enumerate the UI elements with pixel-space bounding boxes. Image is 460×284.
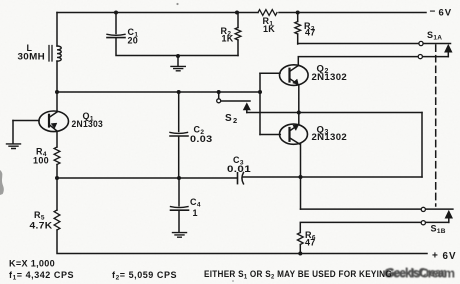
svg-text:0.01: 0.01	[227, 164, 251, 174]
svg-text:30MH: 30MH	[18, 52, 46, 62]
node dot R3 top	[296, 11, 300, 15]
svg-text:2N1302: 2N1302	[312, 72, 348, 82]
svg-text:2N1303: 2N1303	[72, 119, 104, 129]
svg-text:K=X 1,000: K=X 1,000	[9, 259, 55, 269]
resistor R2	[235, 28, 241, 41]
watermark	[384, 266, 455, 281]
wire Q3 base stub	[260, 134, 280, 136]
wire C4 top lead	[178, 178, 180, 206]
wire left vertical (collector line)	[56, 13, 58, 47]
svg-text:1K: 1K	[263, 24, 275, 34]
capacitor C1	[107, 34, 125, 35]
node dot R2 top	[235, 11, 239, 15]
node dot R4/R5	[55, 176, 59, 180]
svg-text:4.7K: 4.7K	[30, 221, 53, 231]
svg-text:1: 1	[193, 208, 198, 218]
svg-text:+: +	[432, 251, 438, 262]
wire top rail	[57, 12, 258, 14]
wire right loop bottom	[243, 176, 422, 178]
resistor R3	[295, 22, 301, 35]
contact circle S1B top	[421, 207, 425, 211]
node dot base bus	[258, 90, 262, 94]
node dot emitter junction	[297, 111, 301, 115]
svg-text:47: 47	[305, 238, 316, 248]
switch S1B arm arrow	[448, 218, 450, 223]
resistor R1	[258, 10, 277, 16]
node dot Q3 collector cross	[299, 175, 303, 179]
svg-text:f2= 5,059 CPS: f2= 5,059 CPS	[112, 270, 177, 282]
svg-text:20: 20	[128, 36, 139, 46]
wire R5 to bottom rail	[57, 230, 427, 254]
transistor Q3	[280, 124, 308, 144]
transistor Q1	[39, 111, 69, 132]
inductor L	[57, 46, 61, 61]
ground (C4)	[173, 233, 187, 238]
wire R6 branch / S1B lower contact	[300, 222, 449, 232]
wire Q1 emitter to R4	[56, 132, 58, 148]
node dot C1 top	[114, 11, 118, 15]
wire R6 to bottom rail	[299, 245, 301, 254]
wire C2 top lead	[178, 92, 180, 132]
node dot C2 top	[177, 90, 181, 94]
switch S2 contact line	[221, 100, 250, 102]
switch S2 contact stub	[218, 92, 220, 99]
wire C2 bottom lead	[178, 136, 180, 178]
switch S2 arm arrow	[244, 104, 250, 110]
wire inductor to Q1	[56, 61, 58, 112]
capacitor C3	[237, 173, 239, 184]
transistor Q2	[280, 65, 309, 86]
wire Q2 collector to S1A lower contact	[298, 57, 448, 66]
svg-text:EITHER S1 OR S2 MAY BE USED FO: EITHER S1 OR S2 MAY BE USED FOR KEYING	[204, 269, 392, 281]
wire S1A top contact	[298, 43, 451, 45]
node dot ground net	[176, 54, 180, 58]
wire Q3 collector down	[300, 144, 302, 209]
node dot Q1 collector branch	[55, 90, 59, 94]
node dot R6 bottom	[298, 252, 302, 256]
node dot S2 branch	[217, 90, 221, 94]
svg-text:GeekIsCrean: GeekIsCrean	[386, 268, 447, 280]
wire Q1 base	[13, 120, 39, 122]
resistor R6	[297, 233, 303, 245]
svg-text:47: 47	[305, 28, 316, 38]
scan smudge left edge	[0, 170, 4, 195]
wire S2 arm to right loop	[247, 112, 422, 114]
scan speck top	[176, 3, 178, 5]
wire R2 leads	[237, 13, 239, 56]
resistor R5	[54, 210, 60, 230]
ground (Q1 base)	[12, 121, 14, 144]
contact circle S2	[217, 99, 221, 103]
svg-text:0.03: 0.03	[190, 134, 213, 144]
wire Q1 collector node	[57, 91, 260, 93]
wire R3 leads	[297, 13, 299, 45]
wire C4 bottom lead	[178, 211, 180, 232]
wire Q2 base stub	[260, 72, 280, 74]
node dot C4 top	[177, 176, 181, 180]
svg-text:2N1302: 2N1302	[312, 132, 348, 142]
capacitor C2	[170, 132, 188, 133]
svg-text:−: −	[430, 7, 436, 18]
contact circle S1B bottom	[421, 221, 425, 225]
gang link dashed line	[435, 45, 437, 206]
resistor R4	[54, 147, 60, 165]
ground (C1/R2 net)	[177, 56, 179, 66]
svg-text:f1= 4,342 CPS: f1= 4,342 CPS	[9, 270, 74, 282]
wire R5 top lead	[56, 178, 58, 210]
contact circle S1A bottom	[418, 55, 422, 59]
svg-text:100: 100	[33, 156, 49, 166]
contact circle S1A top	[419, 41, 423, 45]
wire R4 to node	[56, 165, 58, 179]
svg-text:6V: 6V	[443, 251, 457, 262]
switch S1A arm arrow	[447, 52, 449, 57]
wire main lower-left run	[57, 177, 237, 179]
wire C1 drop	[115, 13, 117, 34]
wire C1 bottom to ground run	[116, 38, 238, 56]
wire right loop vertical	[421, 113, 423, 178]
svg-text:6V: 6V	[439, 8, 453, 19]
capacitor C4	[171, 207, 189, 208]
svg-text:1K: 1K	[222, 34, 234, 44]
wire base bus vertical	[259, 73, 261, 134]
wire S1B top contact	[301, 208, 453, 210]
wire Q2 emitter / Q3 emitter junction	[298, 85, 300, 125]
